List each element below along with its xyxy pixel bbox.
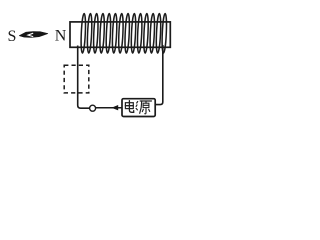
- magnet motion arrow (pointing left toward S): [19, 32, 48, 38]
- switch terminal (small open circle) on bottom wire: [90, 105, 96, 111]
- wire: bottom segment from circle to power-supply box: [96, 107, 122, 109]
- wire: left lead from coil down to bottom-left corner: [78, 46, 90, 109]
- wire: right lead from coil down to power-supply box: [156, 45, 163, 105]
- dashed placeholder box (component to be inserted) on left lead: [64, 65, 89, 93]
- svg-text:N: N: [55, 28, 67, 45]
- current direction arrowhead (pointing left): [111, 105, 118, 110]
- svg-text:S: S: [8, 28, 17, 45]
- coil winding turns (solenoid loops): [80, 13, 167, 53]
- label 源 (second character of 电源): [136, 101, 151, 114]
- power supply box: [122, 99, 155, 117]
- coil core (rectangle frame): [70, 22, 170, 47]
- label 电 (first character of 电源): [125, 101, 133, 113]
